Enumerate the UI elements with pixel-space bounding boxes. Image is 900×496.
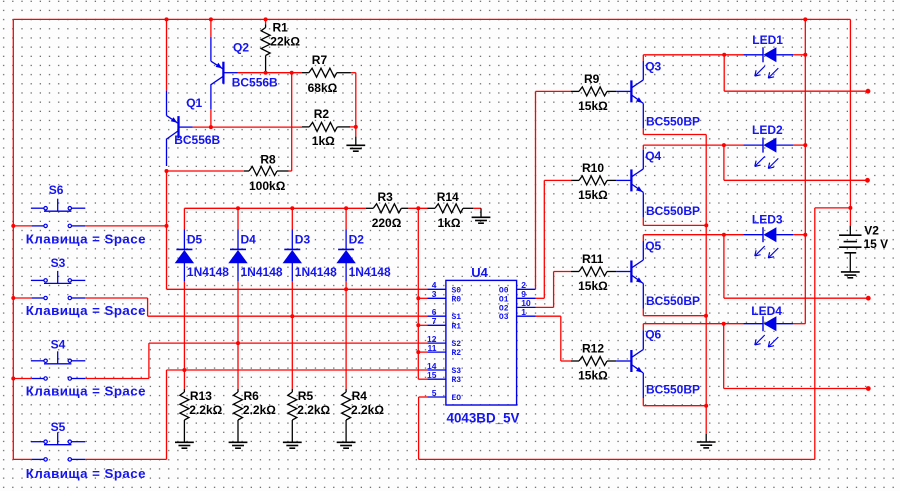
svg-text:Q1: Q1 <box>186 96 202 110</box>
svg-text:D3: D3 <box>295 233 311 247</box>
wire Q6 emitter link <box>643 405 706 407</box>
svg-text:1N4148: 1N4148 <box>349 265 391 279</box>
switch S3 <box>26 256 146 318</box>
node junction J31 (805.3,234.7) <box>803 233 807 237</box>
wire pin5 stub <box>419 396 428 398</box>
wire R3-R14 link <box>408 207 427 209</box>
svg-text:BC550BP: BC550BP <box>646 294 700 308</box>
wire Q3 emitter link <box>643 134 706 136</box>
wire S3 row left <box>13 297 31 299</box>
svg-text:R11: R11 <box>582 252 604 266</box>
svg-text:O1: O1 <box>499 295 509 304</box>
svg-text:2.2kΩ: 2.2kΩ <box>297 403 330 417</box>
svg-text:15kΩ: 15kΩ <box>578 279 608 293</box>
wire LED1 right <box>793 54 805 56</box>
LED LED3 <box>743 213 793 258</box>
wire LED3 branch <box>724 297 868 299</box>
node junction J15 (292.3,208.3) <box>290 206 294 210</box>
svg-text:LED2: LED2 <box>752 123 783 137</box>
wire pin2 riser <box>535 91 537 289</box>
node junction J21 (346.1,289.3) <box>344 287 348 291</box>
svg-text:15kΩ: 15kΩ <box>578 99 608 113</box>
svg-text:O2: O2 <box>499 304 509 313</box>
wire LED4 row <box>643 323 743 325</box>
svg-text:1kΩ: 1kΩ <box>312 134 335 148</box>
resistor R9 <box>571 72 616 113</box>
svg-text:Q4: Q4 <box>645 149 661 163</box>
wire LED4 right <box>793 323 805 325</box>
svg-text:BC550BP: BC550BP <box>646 114 700 128</box>
node junction J33 (706.0,315.7) <box>704 314 708 318</box>
svg-text:R3: R3 <box>452 376 462 385</box>
resistor R6 <box>234 389 277 443</box>
wire LED3 right <box>793 234 805 236</box>
resistor R7 <box>302 53 351 95</box>
wire Q1 base <box>193 126 211 128</box>
node junction J6 (265.6,72.7) <box>264 71 268 75</box>
wire left rail <box>12 19 14 459</box>
wire battery branch top <box>815 207 851 209</box>
wire LED1 branch <box>724 90 868 92</box>
wire Q2 base row <box>237 72 302 74</box>
wire pin4 row <box>167 288 428 290</box>
wire emitter bus <box>705 135 707 435</box>
wire Q4 collector up <box>642 145 644 150</box>
resistor R12 <box>571 341 616 382</box>
diode D3 <box>283 230 338 282</box>
wire Q2 collector to Q1 base <box>210 109 212 127</box>
node junction J5 (210.9,127.1) <box>209 125 213 129</box>
node junction J26 (723.9,145.1) <box>722 143 726 147</box>
svg-text:R14: R14 <box>437 190 459 204</box>
svg-text:R12: R12 <box>582 341 604 355</box>
svg-text:5: 5 <box>432 388 437 398</box>
node wire-end E1 (868,91.2) <box>866 89 871 94</box>
svg-text:R1: R1 <box>273 21 289 35</box>
wire S3 row right <box>85 297 147 299</box>
svg-text:S2: S2 <box>452 340 462 349</box>
svg-text:R2: R2 <box>452 349 462 358</box>
switch S6 <box>26 183 146 246</box>
wire R7-R2 vertical <box>355 73 357 127</box>
svg-text:BC556B: BC556B <box>174 133 220 147</box>
transistor Q5 <box>616 239 700 309</box>
wire pin5 drop <box>418 397 420 459</box>
resistor R2 <box>302 107 350 148</box>
svg-text:Q6: Q6 <box>645 327 661 341</box>
wire LED3 branch drop <box>723 235 725 299</box>
wire Q4 emitter link <box>643 224 706 226</box>
svg-text:1N4148: 1N4148 <box>187 265 229 279</box>
ground R13 <box>175 442 194 448</box>
svg-text:S6: S6 <box>49 183 64 197</box>
wire Q4 emitter down <box>642 217 644 225</box>
LED LED1 <box>743 33 793 78</box>
node junction J23 (238,343.1) <box>236 341 240 345</box>
svg-text:S3: S3 <box>452 367 462 376</box>
wire R8 right <box>289 170 292 172</box>
diode D5 <box>175 230 230 282</box>
wire R12 left <box>561 360 571 362</box>
wire LED1 branch drop <box>723 55 725 91</box>
svg-text:LED1: LED1 <box>752 33 783 47</box>
resistor R1 <box>261 21 300 73</box>
wire R7-R8 vertical <box>291 73 293 171</box>
wire D5 bottom drop <box>183 281 185 389</box>
wire D2 top <box>345 208 347 229</box>
svg-text:1kΩ: 1kΩ <box>438 216 461 230</box>
svg-text:S5: S5 <box>51 420 66 434</box>
wire LED2 right <box>793 144 805 146</box>
node junction J2 (210.9,19.4) <box>209 17 213 21</box>
svg-text:22kΩ: 22kΩ <box>270 34 300 48</box>
svg-text:S4: S4 <box>51 337 66 351</box>
wire pin10 link <box>536 306 554 308</box>
node junction J17 (418.3,208.3) <box>416 206 420 210</box>
svg-text:S0: S0 <box>452 286 462 295</box>
node junction J34 (706.2,405.7) <box>704 404 708 408</box>
wire pin1 drop <box>560 316 562 361</box>
switch S5 <box>26 420 146 481</box>
wire pin9 link <box>536 297 545 299</box>
transistor Q4 <box>616 149 700 218</box>
svg-text:Q2: Q2 <box>233 41 249 55</box>
wire S5 row left <box>13 458 31 460</box>
wire S5 row right <box>85 458 166 460</box>
wire R14 right <box>473 207 481 209</box>
wire Q3 collector up <box>642 55 644 61</box>
svg-text:Клавища = Space: Клавища = Space <box>26 232 146 247</box>
wire S6 row right <box>85 225 166 227</box>
ground R5 <box>283 442 302 448</box>
resistor R8 <box>244 153 289 194</box>
svg-text:R1: R1 <box>452 322 462 331</box>
wire pin1 link <box>536 315 561 317</box>
wire LED1 row <box>643 54 743 56</box>
svg-text:R10: R10 <box>582 161 604 175</box>
node junction J18 (418.3,298.3) <box>416 296 420 300</box>
svg-text:3: 3 <box>432 289 437 299</box>
wire S5 riser <box>166 370 168 459</box>
svg-text:O3: O3 <box>499 313 509 322</box>
node junction J14 (238,208.3) <box>236 206 240 210</box>
wire pin3 stub <box>418 297 427 299</box>
svg-text:15kΩ: 15kΩ <box>578 188 608 202</box>
node junction J19 (418.3,325.3) <box>416 323 420 327</box>
wire Q5 emitter link <box>643 315 706 317</box>
node junction J11 (13.3,225.9) <box>11 224 15 228</box>
svg-text:1N4148: 1N4148 <box>295 265 337 279</box>
svg-text:1: 1 <box>521 307 526 317</box>
wire S4 riser <box>148 343 150 378</box>
wire Q5 emitter down <box>642 309 644 316</box>
svg-text:2.2kΩ: 2.2kΩ <box>243 403 276 417</box>
wire top rail <box>13 18 850 20</box>
wire pin9 riser <box>543 180 545 298</box>
svg-text:D2: D2 <box>349 233 365 247</box>
svg-text:11: 11 <box>428 343 437 353</box>
wire pin12 row <box>149 342 428 344</box>
wire D3 top <box>291 208 293 229</box>
wire Q1-collector drop <box>166 171 168 289</box>
svg-text:220Ω: 220Ω <box>372 216 402 230</box>
wire Q2 emitter feed <box>210 19 212 36</box>
wire D5 top <box>183 208 185 229</box>
svg-text:BC556B: BC556B <box>232 76 278 90</box>
LED LED4 <box>743 304 793 347</box>
wire reset vertical <box>417 208 419 379</box>
svg-text:R8: R8 <box>260 153 276 167</box>
wire LED2 branch <box>724 179 868 181</box>
wire pin7 stub <box>418 324 427 326</box>
wire Q1 emitter feed <box>166 19 168 90</box>
node junction J3 (265.6,19.4) <box>264 17 268 21</box>
wire LED2 row <box>643 144 743 146</box>
LED LED2 <box>743 123 793 169</box>
wire S4 row right <box>85 378 149 380</box>
node junction J20 (418.3,352.1) <box>416 350 420 354</box>
svg-text:R0: R0 <box>452 295 462 304</box>
node junction J9 (166.5,171) <box>165 169 169 173</box>
svg-text:68kΩ: 68kΩ <box>308 81 338 95</box>
diode D2 <box>336 230 391 282</box>
wire D4 top <box>237 208 239 229</box>
svg-text:S3: S3 <box>51 256 66 270</box>
node junction J22 (292.3,316.2) <box>290 314 294 318</box>
resistor R3 <box>366 190 409 230</box>
svg-text:D4: D4 <box>241 233 257 247</box>
wire diode top rail <box>184 207 365 209</box>
node junction J29 (805.3,54.8) <box>803 53 807 57</box>
wire LED4 branch <box>724 388 869 390</box>
node junction J10 (166.5,225.9) <box>165 224 169 228</box>
svg-text:O0: O0 <box>499 286 509 295</box>
resistor R4 <box>342 389 385 443</box>
wire LED2 branch drop <box>723 145 725 180</box>
svg-text:Q5: Q5 <box>645 239 661 253</box>
node junction J27 (723.9,234.7) <box>722 233 726 237</box>
wire R7 right <box>351 72 356 74</box>
wire D2 bottom drop <box>345 281 347 389</box>
svg-text:R13: R13 <box>190 389 212 403</box>
node junction J7 (291.7,72.7) <box>290 71 294 75</box>
svg-text:D5: D5 <box>187 233 203 247</box>
svg-text:15kΩ: 15kΩ <box>578 369 608 383</box>
wire Q3 emitter down <box>642 128 644 134</box>
svg-text:R2: R2 <box>314 107 330 121</box>
svg-text:V2: V2 <box>864 223 879 237</box>
ground R14 <box>472 208 491 223</box>
node junction J24 (184.4,370) <box>182 368 186 372</box>
wire Q5 collector up <box>642 235 644 241</box>
resistor R13 <box>180 389 223 443</box>
node junction J25 (724.2,54.8) <box>722 53 726 57</box>
node wire-end E3 (868.3,298.2) <box>866 296 871 301</box>
wire pin14 row <box>167 369 428 371</box>
svg-text:2.2kΩ: 2.2kΩ <box>351 403 384 417</box>
svg-text:LED4: LED4 <box>751 304 782 318</box>
wire R2 row <box>211 126 302 128</box>
diode D4 <box>228 230 283 282</box>
node junction J30 (805.3,145.1) <box>803 143 807 147</box>
svg-text:Q3: Q3 <box>645 60 661 74</box>
ground battery <box>841 272 860 278</box>
svg-text:EO: EO <box>452 394 462 403</box>
wire LED anode bus <box>804 19 806 323</box>
svg-text:R6: R6 <box>244 389 260 403</box>
ground R4 <box>337 442 356 448</box>
svg-text:100kΩ: 100kΩ <box>249 179 286 193</box>
wire D3 bottom drop <box>291 281 293 389</box>
svg-text:1N4148: 1N4148 <box>241 265 283 279</box>
ground emitter bus <box>697 434 716 448</box>
svg-text:BC550BP: BC550BP <box>646 383 700 397</box>
wire bottom rail <box>419 458 815 460</box>
node wire-end E4 (868.3,388.5) <box>866 386 871 391</box>
node junction J8 (355.8,126.9) <box>354 125 358 129</box>
switch S4 <box>26 337 146 398</box>
wire R2 right <box>350 126 356 128</box>
svg-text:R7: R7 <box>312 53 328 67</box>
wire R9 left <box>536 90 572 92</box>
wire R10 left <box>544 179 571 181</box>
svg-text:4043BD_5V: 4043BD_5V <box>447 411 520 426</box>
svg-text:U4: U4 <box>471 265 488 280</box>
svg-text:Клавища = Space: Клавища = Space <box>26 384 146 399</box>
node junction J12 (13.3,298) <box>11 296 15 300</box>
svg-text:BC550BP: BC550BP <box>646 204 700 218</box>
resistor R14 <box>428 190 474 230</box>
svg-text:LED3: LED3 <box>752 213 783 227</box>
svg-text:15 V: 15 V <box>864 237 889 251</box>
IC U4 4043BD_5V quad latch <box>427 265 535 426</box>
resistor R10 <box>571 161 616 202</box>
wire R11 left <box>554 271 571 273</box>
transistor Q6 <box>616 327 700 398</box>
wire S3 riser <box>147 298 149 316</box>
svg-text:R3: R3 <box>378 190 394 204</box>
wire S6 row left <box>13 225 31 227</box>
wire S4 row left <box>13 378 31 380</box>
wire pin10 riser <box>553 272 555 308</box>
node junction J32 (706.3,225.4) <box>704 223 708 227</box>
svg-text:S1: S1 <box>452 313 462 322</box>
wire battery feed <box>849 19 851 225</box>
transistor Q3 <box>616 60 700 129</box>
wire battery branch riser <box>814 208 816 460</box>
wire pin15 stub <box>418 378 427 380</box>
svg-text:15: 15 <box>427 370 437 380</box>
node wire-end E2 (867.5,180.3) <box>865 178 870 183</box>
wire LED4 branch drop <box>723 324 725 389</box>
node junction J28 (723.7,323.7) <box>722 322 726 326</box>
wire Q6 collector up <box>642 324 644 331</box>
node junction J16 (346.1,208.3) <box>344 206 348 210</box>
wire pin11 stub <box>418 351 427 353</box>
wire pin6 row <box>148 315 428 317</box>
node junction J4 (805.3,19.4) <box>803 17 807 21</box>
wire LED3 row <box>643 234 743 236</box>
wire R8 left <box>167 170 244 172</box>
svg-text:7: 7 <box>432 316 437 326</box>
wire R1 stub <box>265 19 267 24</box>
svg-text:R9: R9 <box>584 72 600 86</box>
transistor Q2 <box>211 37 278 109</box>
svg-text:Клавища = Space: Клавища = Space <box>26 466 146 481</box>
node junction J13 (13.3,378.5) <box>11 377 15 381</box>
svg-text:R5: R5 <box>298 389 314 403</box>
ground R6 <box>229 442 248 448</box>
node junction J1 (166.5,19.4) <box>165 17 169 21</box>
battery V2 <box>839 223 888 272</box>
svg-text:R4: R4 <box>352 389 368 403</box>
svg-text:Клавища = Space: Клавища = Space <box>26 303 146 318</box>
ground R2 <box>346 127 365 151</box>
wire D4 bottom drop <box>237 281 239 389</box>
svg-text:2.2kΩ: 2.2kΩ <box>189 403 222 417</box>
resistor R11 <box>571 252 616 293</box>
transistor Q1 <box>167 91 221 166</box>
wire Q6 emitter down <box>642 398 644 406</box>
node junction J35 (850.4,207.9) <box>848 206 852 210</box>
resistor R5 <box>288 389 331 443</box>
